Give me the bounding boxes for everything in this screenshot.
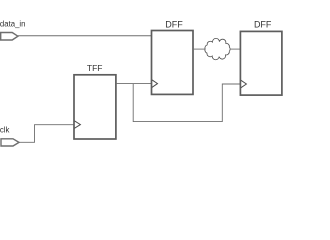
- TFF clock triangle: [74, 121, 80, 129]
- wire cloud to DFF2 data input: [230, 48, 241, 50]
- svg-text:data_in: data_in: [0, 19, 25, 28]
- svg-text:DFF: DFF: [165, 19, 183, 29]
- wire clk to TFF clock input: [19, 125, 74, 143]
- svg-text:DFF: DFF: [254, 19, 272, 29]
- input port clk: [1, 139, 19, 146]
- input port data_in: [1, 33, 18, 41]
- wire branch from clock net down and across to DFF2 clock: [133, 84, 240, 122]
- DFF1 clock triangle: [152, 80, 158, 88]
- svg-text:clk: clk: [0, 125, 9, 134]
- wire TFF output to DFF1 clock: [116, 83, 152, 85]
- wire DFF1 output to cloud: [193, 48, 205, 50]
- cloud symbol: [205, 38, 230, 59]
- DFF2 clock triangle: [241, 80, 247, 88]
- flip-flop TFF box: [74, 75, 116, 139]
- flip-flop DFF2 box: [240, 31, 282, 95]
- svg-text:TFF: TFF: [87, 63, 103, 73]
- flip-flop DFF1 box: [152, 31, 194, 95]
- wire data_in to DFF1 data input: [18, 35, 152, 37]
